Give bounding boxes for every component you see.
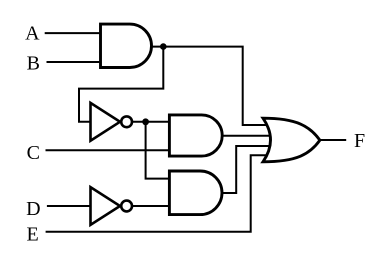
junction dot at NOT1 output: [142, 118, 149, 125]
svg-text:C: C: [27, 142, 40, 164]
wire NOT1 output down to AND3 top input: [146, 122, 173, 179]
AND gate 3 (middle lower): [169, 171, 222, 215]
OR gate (output F): [263, 118, 320, 162]
wire B input: [47, 61, 105, 63]
svg-text:E: E: [27, 224, 39, 246]
wire A input: [45, 32, 104, 34]
AND gate 2 (middle upper): [169, 115, 222, 156]
wire F output: [320, 139, 347, 141]
svg-text:D: D: [26, 198, 40, 220]
NOT gate 1 (inverter from AND1 output): [91, 103, 133, 141]
NOT gate 2 (inverter on D): [91, 187, 133, 225]
wire E input to OR bottom input: [46, 155, 268, 232]
junction dot at AND1 output: [160, 43, 167, 50]
wire AND1 output down to NOT1 input: [79, 47, 163, 122]
wire NOT1 output to AND2 top input: [131, 121, 173, 123]
wire D input: [47, 205, 95, 207]
wire NOT2 output to AND3 bottom input: [131, 205, 173, 207]
wire AND2 output to OR input 2: [222, 135, 275, 137]
svg-text:F: F: [354, 130, 365, 152]
wire AND1 output to OR top input: [151, 47, 270, 125]
svg-text:B: B: [27, 53, 40, 75]
svg-text:A: A: [25, 23, 40, 45]
wire AND3 output to OR input 3: [222, 146, 272, 193]
AND gate 1 (inputs A,B): [101, 24, 152, 67]
wire C input: [46, 149, 174, 151]
